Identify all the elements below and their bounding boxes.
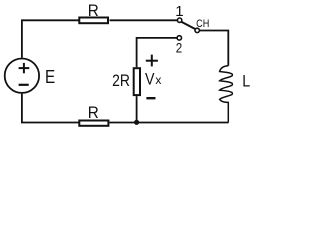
- svg-text:R: R: [88, 103, 99, 122]
- svg-text:L: L: [242, 72, 250, 91]
- svg-text:2: 2: [176, 39, 183, 55]
- svg-text:V: V: [145, 70, 155, 88]
- svg-text:R: R: [88, 1, 99, 20]
- svg-text:CH: CH: [196, 18, 209, 30]
- svg-text:2R: 2R: [112, 71, 130, 90]
- svg-text:E: E: [45, 67, 55, 87]
- svg-text:1: 1: [175, 3, 183, 20]
- svg-text:x: x: [155, 73, 161, 87]
